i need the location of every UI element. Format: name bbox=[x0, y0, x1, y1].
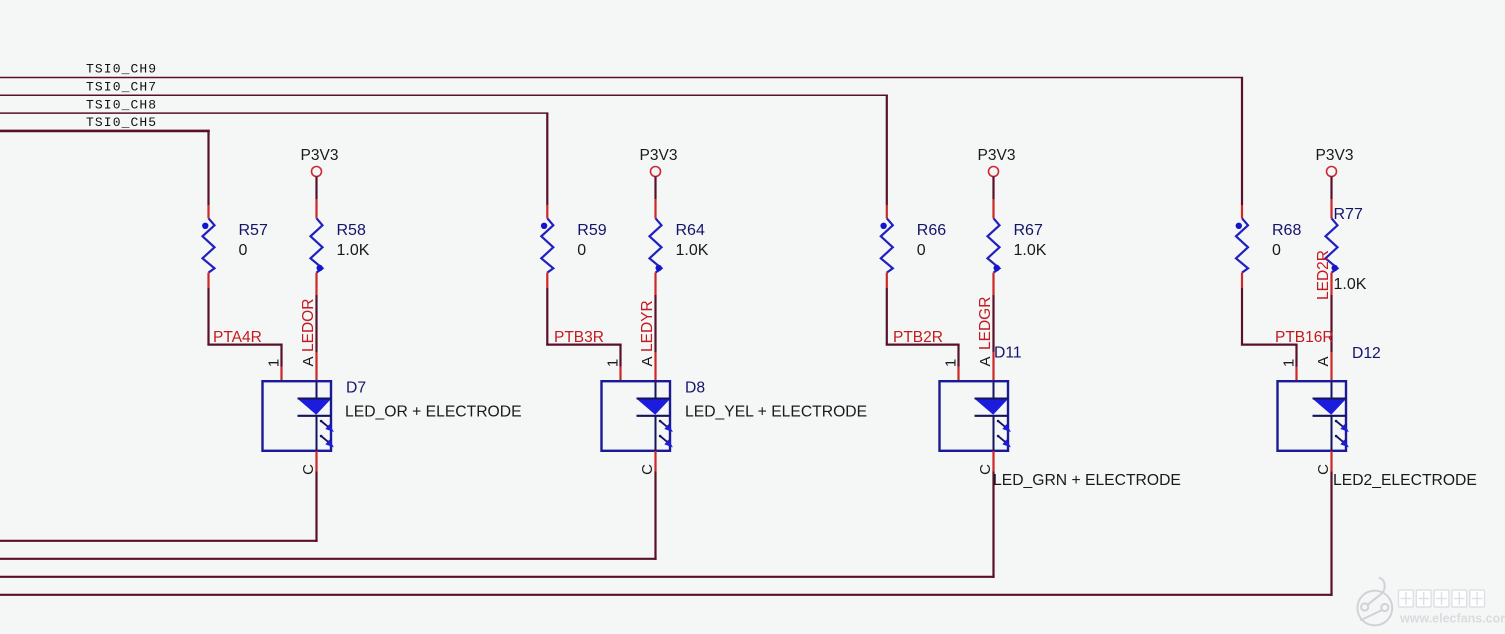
svg-text:TSI0_CH7: TSI0_CH7 bbox=[86, 80, 157, 95]
svg-text:1: 1 bbox=[266, 359, 283, 367]
svg-text:PTB16R: PTB16R bbox=[1275, 329, 1334, 346]
svg-text:LED2R: LED2R bbox=[1315, 250, 1332, 300]
svg-text:1.0K: 1.0K bbox=[1014, 242, 1047, 259]
svg-text:LEDGR: LEDGR bbox=[977, 297, 994, 350]
svg-text:A: A bbox=[1315, 356, 1332, 366]
svg-text:1.0K: 1.0K bbox=[1334, 276, 1367, 293]
svg-text:PTB3R: PTB3R bbox=[554, 329, 604, 346]
svg-text:LEDOR: LEDOR bbox=[300, 299, 317, 352]
svg-text:LEDYR: LEDYR bbox=[639, 300, 656, 352]
svg-text:R68: R68 bbox=[1272, 222, 1301, 239]
svg-text:1: 1 bbox=[605, 359, 622, 367]
svg-text:1.0K: 1.0K bbox=[676, 242, 709, 259]
svg-text:C: C bbox=[639, 464, 656, 475]
svg-text:D12: D12 bbox=[1352, 345, 1381, 362]
svg-text:PTA4R: PTA4R bbox=[213, 329, 262, 346]
svg-text:TSI0_CH8: TSI0_CH8 bbox=[86, 97, 157, 112]
svg-text:0: 0 bbox=[917, 242, 926, 259]
svg-text:D7: D7 bbox=[346, 380, 366, 397]
svg-text:LED_GRN + ELECTRODE: LED_GRN + ELECTRODE bbox=[993, 472, 1181, 489]
svg-text:TSI0_CH5: TSI0_CH5 bbox=[86, 115, 157, 130]
svg-text:PTB2R: PTB2R bbox=[893, 329, 943, 346]
svg-text:A: A bbox=[977, 356, 994, 366]
svg-text:P3V3: P3V3 bbox=[1316, 147, 1354, 164]
svg-text:0: 0 bbox=[239, 242, 248, 259]
svg-text:R64: R64 bbox=[676, 222, 705, 239]
svg-text:1: 1 bbox=[943, 359, 960, 367]
svg-text:R59: R59 bbox=[577, 222, 606, 239]
svg-text:P3V3: P3V3 bbox=[640, 147, 678, 164]
svg-text:D8: D8 bbox=[685, 380, 705, 397]
svg-text:P3V3: P3V3 bbox=[978, 147, 1016, 164]
svg-text:C: C bbox=[1315, 464, 1332, 475]
svg-text:LED_OR + ELECTRODE: LED_OR + ELECTRODE bbox=[345, 403, 522, 420]
svg-text:1: 1 bbox=[1281, 359, 1298, 367]
svg-text:LED2_ELECTRODE: LED2_ELECTRODE bbox=[1333, 472, 1477, 489]
svg-text:P3V3: P3V3 bbox=[301, 147, 339, 164]
svg-text:R77: R77 bbox=[1334, 206, 1363, 223]
svg-text:1.0K: 1.0K bbox=[337, 242, 370, 259]
svg-text:R58: R58 bbox=[337, 222, 366, 239]
svg-text:C: C bbox=[977, 464, 994, 475]
svg-text:R66: R66 bbox=[917, 222, 946, 239]
svg-text:C: C bbox=[300, 464, 317, 475]
svg-text:R57: R57 bbox=[239, 222, 268, 239]
svg-text:www.elecfans.com: www.elecfans.com bbox=[1399, 612, 1505, 626]
svg-text:A: A bbox=[300, 356, 317, 366]
svg-text:D11: D11 bbox=[994, 345, 1022, 362]
svg-text:R67: R67 bbox=[1014, 222, 1043, 239]
svg-text:0: 0 bbox=[1272, 242, 1281, 259]
svg-text:A: A bbox=[639, 356, 656, 366]
svg-text:TSI0_CH9: TSI0_CH9 bbox=[86, 62, 157, 77]
svg-text:LED_YEL + ELECTRODE: LED_YEL + ELECTRODE bbox=[685, 403, 867, 420]
svg-text:0: 0 bbox=[577, 242, 586, 259]
